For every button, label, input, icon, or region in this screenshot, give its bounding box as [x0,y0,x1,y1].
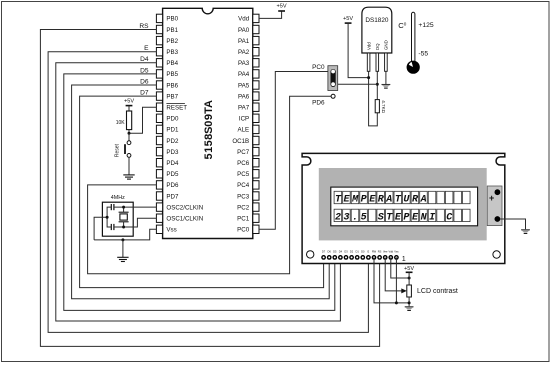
svg-text:1: 1 [402,254,406,263]
svg-text:P: P [361,195,367,206]
svg-text:A: A [203,100,215,108]
ground (sensor) [382,84,391,86]
svg-text:Vee: Vee [383,250,388,254]
jumper pad PC0 [328,66,338,91]
svg-text:D4: D4 [140,56,149,63]
svg-text:3: 3 [343,212,349,223]
LCD bezel [319,168,487,240]
LCD cell r1c9 [403,191,411,203]
wire junction to ground [122,240,124,257]
node Vss junction [395,301,398,304]
LCD cell r2c3 [351,209,359,221]
LCD cell r2c2 [343,209,351,221]
LCD cell r1c3 [351,191,359,203]
LCD backlight connector [487,186,502,226]
svg-text:PA5: PA5 [238,82,250,89]
U1 left pin PD1 [156,125,162,133]
svg-text:PA6: PA6 [238,93,250,100]
wire +5V to resistor R1 [128,106,130,111]
wire switch to ground [128,157,130,175]
svg-text:A: A [385,195,392,206]
wire crystal bottom to OSC1 [123,222,125,227]
LCD cell r2c11 [420,209,428,221]
svg-text:PD1: PD1 [166,127,179,134]
svg-text:P: P [403,212,409,223]
svg-text:PC3: PC3 [237,193,250,200]
wire Vdd leg down [369,71,378,126]
svg-text:PC4: PC4 [237,182,250,189]
svg-text:.: . [352,212,358,223]
wire resistor to DQ junction [376,84,378,99]
LCD cell r1c11 [420,191,428,203]
svg-text:PC2: PC2 [237,204,250,211]
U2 leg GND [385,53,388,71]
svg-text:OSC2/CLKIN: OSC2/CLKIN [166,204,203,211]
U1 right pin ALE [253,125,259,133]
node Vdd junction [408,277,411,280]
LCD mounting hole left [307,251,314,258]
LCD display area [331,187,478,226]
svg-text:PD6: PD6 [312,99,325,106]
LCD pin D6 [327,255,332,260]
U1 right pin PA0 [253,25,259,33]
U1 right pin PC4 [253,181,259,189]
svg-text:0: 0 [203,121,215,127]
svg-text:T: T [395,195,402,206]
LCD pin D7 [321,255,326,260]
ground (backlight) [521,229,530,231]
svg-text:5: 5 [361,212,367,223]
U1 left pin PB2 [156,36,162,44]
svg-text:4MHz: 4MHz [111,195,125,201]
U1 left pin PB7 [156,92,162,100]
U1 right pin OC1B [253,136,259,144]
svg-text:PC6: PC6 [237,160,250,167]
wire Vss down [395,257,397,303]
U1 left pin RESET [156,103,162,111]
U1 left pin OSC1/CLKIN [156,214,162,222]
svg-text:E: E [144,45,149,52]
svg-text:Vss: Vss [394,250,399,254]
U1 left pin PB6 [156,81,162,89]
wire pad to DQ [338,83,378,85]
wire resistor to RESET pin [128,130,130,134]
wire RW + Vss to pot bottom [374,257,409,303]
node reset junction [128,132,131,135]
U1 right pin PA1 [253,36,259,44]
svg-text:PD2: PD2 [166,138,179,145]
U1 right pin ICP [253,114,259,122]
LCD cell r2c8 [394,209,402,221]
LCD pin D0 [360,255,365,260]
svg-text:RS: RS [378,250,382,254]
svg-text:E: E [343,195,350,206]
U1 left pin PD0 [156,114,162,122]
svg-text:PB7: PB7 [166,93,178,100]
LCD cell r2c16 [463,209,471,221]
svg-text:D6: D6 [328,250,332,254]
svg-text:D7: D7 [322,250,326,254]
U1 left pin PB5 [156,70,162,78]
LCD cell r2c12 [428,209,436,221]
svg-text:PB6: PB6 [166,82,178,89]
svg-text:+5V: +5V [277,4,287,10]
LCD pin Vss [394,255,399,260]
resistor R1 10K [127,111,132,130]
LCD module board [302,153,505,263]
LCD pin D5 [332,255,337,260]
LCD cell r2c10 [411,209,419,221]
U1 left pin PD5 [156,170,162,178]
node Vdd junction [367,76,370,79]
svg-text:U: U [403,195,410,206]
svg-text:D1: D1 [356,250,360,254]
wire net D6: MCU to LCD [72,85,330,299]
svg-text:+5V: +5V [124,99,134,105]
svg-text:PA2: PA2 [238,49,250,56]
thermometer icon [412,12,415,61]
svg-text:5: 5 [203,140,215,146]
svg-text:ICP: ICP [239,116,249,123]
LCD cell r1c12 [428,191,436,203]
svg-text:5: 5 [203,153,215,159]
U1 right pin Vdd [253,14,259,22]
LCD cell r1c7 [385,191,393,203]
svg-text:PA1: PA1 [238,38,250,45]
wire +5V to pot [408,272,410,285]
svg-text:-55: -55 [418,50,428,57]
LCD cell r2c4 [360,209,368,221]
svg-text:N: N [421,212,428,223]
U1 right pin PA4 [253,70,259,78]
node crystal junctions [122,206,125,209]
U1 left pin PB3 [156,48,162,56]
svg-text:+: + [489,193,494,203]
svg-text:D0: D0 [361,250,365,254]
LCD pin Vee [383,255,388,260]
svg-text:C: C [446,212,452,223]
wire +5V to Vdd leg [348,23,369,78]
svg-text:D4: D4 [339,250,343,254]
ground (crystal/Vss) [117,257,128,261]
U2 leg DQ [376,53,379,71]
svg-text:Reset: Reset [115,143,121,157]
svg-text:M: M [351,195,359,206]
node DQ junction [376,83,379,86]
LCD pin D1 [355,255,360,260]
node pot bottom junction [408,301,411,304]
wire caps common [107,207,111,227]
svg-text:S: S [203,127,215,134]
U1 right pin PA5 [253,81,259,89]
LCD cell r1c6 [377,191,385,203]
svg-text:ALE: ALE [237,127,249,134]
svg-text:PB5: PB5 [166,71,178,78]
wire GND leg to ground [385,71,387,84]
svg-text:Vdd: Vdd [366,42,371,50]
LCD pin Vdd [388,255,393,260]
svg-text:OC1B: OC1B [232,138,249,145]
svg-text:T: T [335,195,342,206]
wire DQ leg down [376,71,378,84]
U1 left pin PD7 [156,192,162,200]
svg-text:A: A [420,195,427,206]
wire net D5: MCU to LCD [64,74,335,311]
svg-text:PB1: PB1 [166,27,178,34]
svg-text:PA7: PA7 [238,105,250,112]
U1 right pin PC5 [253,170,259,178]
U1 left pin PD2 [156,136,162,144]
LCD cell r2c15 [454,209,462,221]
svg-text:4.7KΩ: 4.7KΩ [381,100,386,113]
LCD cell r2c7 [385,209,393,221]
wire junction to switch [128,133,130,141]
U1 left pin PB4 [156,59,162,67]
LCD cell r1c15 [454,191,462,203]
ground (contrast) [405,306,414,308]
connector PD6 (open) [331,94,335,98]
LCD pin RS [377,255,382,260]
potentiometer LCD contrast [407,285,412,297]
svg-text:PC7: PC7 [237,149,250,156]
svg-text:+5V: +5V [343,16,353,22]
LCD cell r1c16 [463,191,471,203]
svg-text:1: 1 [203,147,215,153]
svg-text:LCD contrast: LCD contrast [417,288,458,295]
LCD cell r1c8 [394,191,402,203]
U1 right pin PC1 [253,214,259,222]
U1 left pin PD6 [156,181,162,189]
LCD pin E [366,255,371,260]
U1 right pin PC3 [253,192,259,200]
LCD cell r1c1 [334,191,342,203]
svg-text:PC0: PC0 [312,64,325,71]
svg-text:T: T [203,107,215,114]
resistor R2 4.7K pull-up [375,100,379,113]
svg-text:PB2: PB2 [166,38,178,45]
svg-text:PD5: PD5 [166,171,179,178]
svg-text:RW: RW [372,250,377,254]
LCD cell r1c2 [343,191,351,203]
microcontroller U1 AT90S8515 [163,8,253,238]
node ground junction [121,238,124,241]
svg-text:PD7: PD7 [166,193,179,200]
svg-text:9: 9 [203,114,215,120]
U1 right pin PA7 [253,103,259,111]
LCD cell r2c6 [377,209,385,221]
wire connector to ground [500,219,525,229]
U1 right pin PA3 [253,59,259,67]
svg-text:10K: 10K [116,120,126,126]
LCD cell r2c1 [334,209,342,221]
capacitor C2 [111,224,114,230]
svg-text:E: E [395,212,402,223]
svg-text:T: T [386,212,393,223]
svg-text:E: E [412,212,419,223]
svg-text:PB3: PB3 [166,49,178,56]
svg-text:R: R [412,195,419,206]
U1 left pin PD4 [156,159,162,167]
LCD cell r1c10 [411,191,419,203]
svg-text:S: S [378,212,384,223]
svg-text:OSC1/CLKIN: OSC1/CLKIN [166,216,203,223]
wire pot to ground [408,297,410,306]
svg-text:I: I [429,212,435,223]
sensor U2 DS1820 body [362,7,392,53]
LCD cell r1c13 [437,191,445,203]
wire net PD6: MCU PD6 to sensor connector [88,96,332,273]
LCD mounting hole right [493,251,500,258]
U2 leg Vdd [367,53,370,71]
wire net E: MCU to LCD [48,52,368,333]
LCD cell r2c9 [403,209,411,221]
LCD pin RW [372,255,377,260]
svg-text:PD6: PD6 [166,182,179,189]
svg-text:PC0: PC0 [237,227,250,234]
U1 right pin PA6 [253,92,259,100]
svg-text:PD3: PD3 [166,149,179,156]
LCD cell r2c13 [437,209,445,221]
svg-text:E: E [368,250,370,254]
LCD cell r1c14 [445,191,453,203]
U1 left pin PB0 [156,14,162,22]
LCD cell r2c5 [368,209,376,221]
wire Vdd to +5V [391,257,409,278]
LCD pin D4 [338,255,343,260]
svg-text:RESET: RESET [166,105,187,112]
svg-text:PA3: PA3 [238,60,250,67]
U1 left pin PB1 [156,25,162,33]
switch SW1 Reset [127,141,131,145]
U1 right pin PC0 [253,225,259,233]
U1 right pin PC6 [253,159,259,167]
connector pad top [495,189,501,195]
svg-text:Vdd: Vdd [388,250,393,254]
svg-text:PA4: PA4 [238,71,250,78]
svg-text:2: 2 [335,212,341,223]
svg-text:PB4: PB4 [166,60,178,67]
wire net D7: MCU to LCD [80,96,324,288]
LCD cell r2c14 [445,209,453,221]
svg-text:D5: D5 [140,67,149,74]
LCD cell r1c5 [368,191,376,203]
wire Vee to pot wiper [385,257,402,291]
svg-text:PC5: PC5 [237,171,250,178]
wire net D4: MCU to LCD [56,63,341,321]
svg-text:Vss: Vss [166,227,176,234]
svg-text:DQ: DQ [375,43,380,50]
wire net RS: MCU to LCD [40,30,379,347]
svg-text:R: R [378,195,385,206]
svg-text:PA0: PA0 [238,27,250,34]
U1 right pin PA2 [253,48,259,56]
crystal X1 4MHz [119,211,129,213]
svg-text:8: 8 [203,134,215,140]
LCD cell r1c4 [360,191,368,203]
crystal block outline [102,202,133,236]
svg-text:DS1820: DS1820 [365,17,389,24]
svg-text:D3: D3 [344,250,348,254]
svg-text:E: E [369,195,376,206]
U1 left pin OSC2/CLKIN [156,203,162,211]
wire PC0 to jumper pad [259,72,328,230]
svg-text:+5V: +5V [404,266,414,272]
U1 left pin Vss [156,225,162,233]
svg-text:Vdd: Vdd [238,16,250,23]
svg-text:RS: RS [139,23,149,30]
wire Vss to ground rail [94,229,156,240]
svg-text:PB0: PB0 [166,16,178,23]
svg-text:D7: D7 [140,90,149,97]
LCD pin D2 [349,255,354,260]
svg-text:+125: +125 [418,22,434,29]
svg-text:D5: D5 [333,250,337,254]
svg-text:D6: D6 [140,78,149,85]
wire crystal top to OSC2 [114,206,156,208]
svg-text:D2: D2 [350,250,354,254]
connector pad bottom [495,216,501,222]
capacitor C1 [111,204,114,210]
U1 right pin PC7 [253,147,259,155]
U1 right pin PC2 [253,203,259,211]
pot wiper arrow [401,288,407,293]
svg-text:PD0: PD0 [166,116,179,123]
U1 left pin PD3 [156,147,162,155]
svg-text:PD4: PD4 [166,160,179,167]
LCD pin D3 [344,255,349,260]
ground (reset) [123,175,134,179]
svg-text:GND: GND [384,40,389,50]
wire Vdd to +5V [259,11,282,18]
svg-text:PC1: PC1 [237,216,250,223]
